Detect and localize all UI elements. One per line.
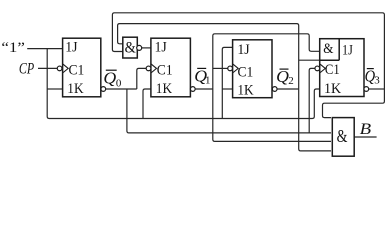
svg-text:Q: Q — [103, 68, 116, 87]
flip-flop FF2 box — [233, 40, 272, 98]
wire Q2 branch to FF3 AND input B — [299, 59, 320, 61]
svg-text:C1: C1 — [157, 61, 173, 78]
bubble AND1 output — [137, 45, 142, 50]
wire Q0 to FF1 clock — [137, 68, 146, 89]
svg-text:1K: 1K — [156, 80, 172, 97]
svg-text:CP: CP — [19, 61, 34, 78]
svg-text:1K: 1K — [67, 80, 83, 97]
bubble output Q0 — [101, 87, 106, 92]
svg-text:C1: C1 — [325, 61, 340, 78]
bubble output Q3 — [364, 87, 369, 92]
dynamic clock triangle FF1 — [151, 64, 157, 73]
flip-flop FF1 box — [151, 38, 191, 97]
svg-text:C1: C1 — [238, 63, 254, 80]
svg-text:“1”: “1” — [1, 40, 25, 56]
wire FF2 1K stub — [222, 88, 232, 90]
svg-text:1J: 1J — [342, 43, 353, 59]
wire 1K stub FF0 — [47, 88, 62, 90]
svg-text:C1: C1 — [69, 61, 85, 78]
bubble output Q1 — [190, 87, 195, 92]
wire Q0 rail down to AND B — [127, 89, 331, 133]
wire logic-1 rail from "1" branch to FF3 1K — [47, 49, 320, 119]
svg-text:3: 3 — [374, 75, 380, 87]
svg-text:1J: 1J — [237, 41, 249, 58]
svg-text:&: & — [125, 40, 136, 57]
bubble clock FF1 — [146, 66, 151, 71]
node "1" input wire — [27, 48, 62, 50]
wire Q1 output — [195, 88, 213, 90]
wire FF2 1J from rail — [222, 47, 232, 118]
overline Q3 — [367, 68, 374, 70]
dynamic clock triangle FF0 — [63, 64, 69, 73]
wire FF1 1K from rail — [143, 89, 151, 119]
wire Q3 output — [369, 88, 385, 90]
svg-text:1K: 1K — [324, 80, 341, 97]
wire Q1 feedback loop L3 to FF3 AND input A and down to AND B — [213, 34, 331, 142]
and-gate G1 box — [123, 37, 138, 58]
wire CP to clock bubble FF0 — [38, 67, 57, 69]
svg-text:1: 1 — [205, 75, 211, 87]
overline Q0 — [106, 69, 117, 71]
wire AND1 output to FF1 1J — [142, 47, 151, 49]
svg-text:0: 0 — [116, 78, 122, 90]
overline Q1 — [197, 67, 206, 69]
svg-text:1J: 1J — [155, 38, 167, 55]
and-gate GB box — [332, 118, 354, 157]
dynamic clock triangle FF3 — [320, 64, 326, 73]
wire Q2 feedback loop L2 to AND1 input and down to AND B — [118, 24, 331, 151]
bubble clock FF3 — [315, 66, 320, 71]
bubble output Q2 — [272, 87, 277, 92]
wire FF3 clock from Q0 rail — [309, 68, 315, 132]
flip-flop FF0 box — [63, 38, 101, 97]
svg-text:Q: Q — [276, 67, 289, 86]
bubble clock FF0 — [57, 66, 62, 71]
overline Q2 — [280, 68, 289, 70]
and-gate section border inside FF3 — [320, 39, 340, 61]
wire Q2 output — [277, 88, 299, 90]
svg-text:&: & — [323, 41, 334, 57]
wire Q1 to FF2 clock — [213, 67, 228, 69]
wire Q0 output — [106, 88, 137, 90]
flip-flop FF3 box — [320, 39, 364, 97]
svg-text:1J: 1J — [65, 38, 77, 55]
dynamic clock triangle FF2 — [233, 64, 239, 73]
bubble clock FF2 — [228, 66, 233, 71]
wire AND B output — [354, 136, 376, 138]
svg-text:1K: 1K — [237, 82, 253, 99]
wire Q3 feedback loop L1 to AND1 input and down to AND B top — [112, 13, 384, 118]
svg-text:2: 2 — [288, 75, 294, 87]
svg-text:&: & — [337, 126, 348, 146]
svg-text:B: B — [360, 121, 372, 138]
